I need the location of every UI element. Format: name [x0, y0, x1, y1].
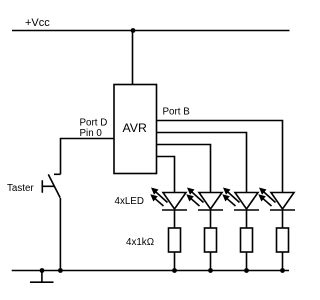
IC U1 AVR: [114, 85, 157, 174]
pushbutton S1 moving contact: [48, 174, 60, 197]
svg-text:Port B: Port B: [163, 107, 191, 118]
pushbutton S1 fixed contact tick: [54, 173, 61, 175]
wire Port D Pin 0 to switch: [61, 139, 115, 175]
svg-text:4xLED: 4xLED: [115, 196, 144, 207]
junction dot ground symbol: [40, 268, 45, 273]
LED D4: [258, 188, 295, 229]
LED D2: [186, 188, 223, 229]
+Vcc power rail: [12, 30, 290, 32]
svg-text:Port D: Port D: [80, 118, 108, 129]
wire Port B pin 3 to LED D2: [157, 145, 211, 193]
LED D3: [222, 188, 259, 229]
resistor R4: [277, 228, 289, 273]
svg-text:+Vcc: +Vcc: [25, 17, 50, 29]
wire Port B pin 1 to LED D4: [157, 121, 283, 193]
pushbutton S1 actuator: [42, 180, 54, 192]
LED D1: [150, 188, 187, 229]
wire Vcc to AVR: [132, 31, 134, 85]
wire Port B pin 4 to LED D1: [157, 157, 175, 193]
wire switch to ground rail: [59, 198, 61, 271]
resistor R2: [205, 228, 217, 273]
junction dot switch to ground: [58, 268, 63, 273]
ground rail: [12, 270, 289, 272]
resistor R3: [241, 228, 253, 273]
svg-text:AVR: AVR: [123, 121, 147, 135]
svg-text:Pin 0: Pin 0: [80, 128, 103, 139]
svg-text:4x1kΩ: 4x1kΩ: [126, 237, 154, 248]
resistor R1: [169, 228, 181, 273]
wire Port B pin 2 to LED D3: [157, 133, 247, 193]
ground symbol: [30, 271, 54, 283]
junction dot on Vcc rail: [131, 28, 136, 33]
svg-text:Taster: Taster: [7, 183, 34, 194]
